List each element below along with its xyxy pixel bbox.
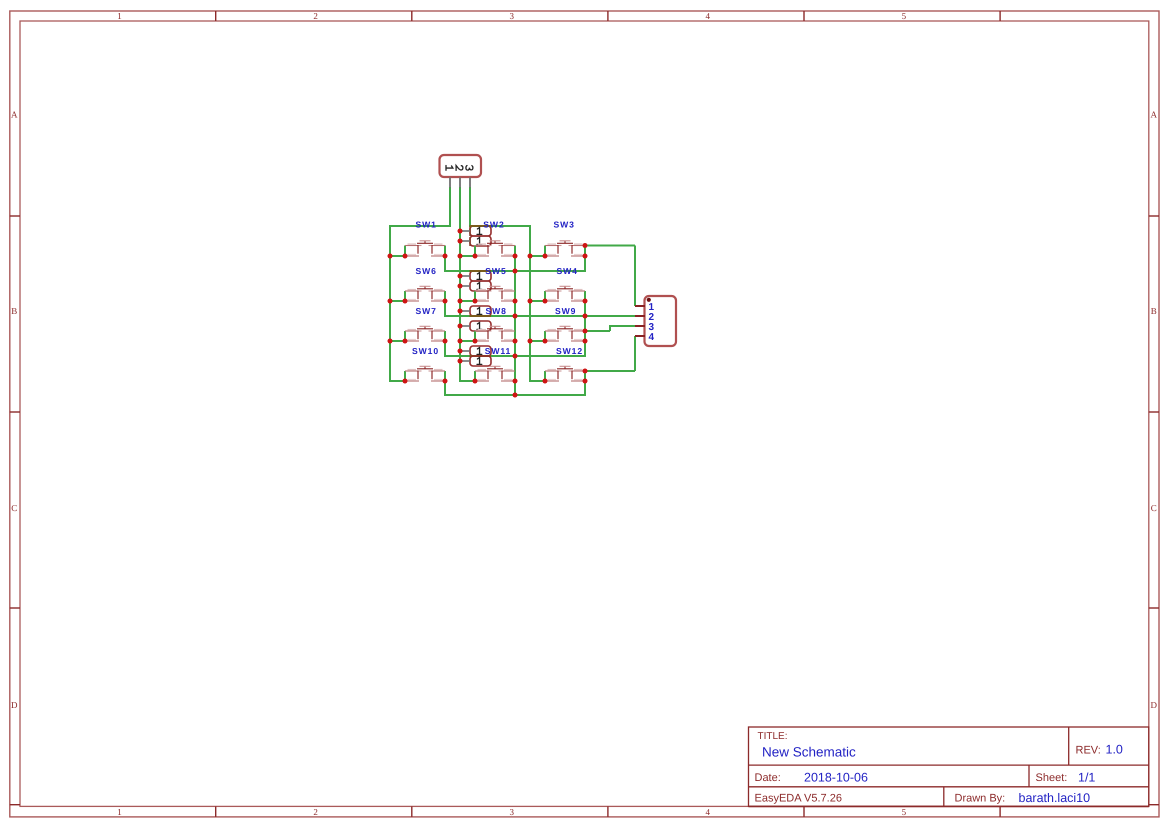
svg-text:5: 5 xyxy=(902,807,907,817)
svg-text:Sheet:: Sheet: xyxy=(1036,772,1068,784)
svg-text:New Schematic: New Schematic xyxy=(762,745,856,760)
svg-text:2: 2 xyxy=(313,11,318,21)
connector J1 3-pin header (pins 1 2 3) xyxy=(440,155,482,188)
svg-text:barath.laci10: barath.laci10 xyxy=(1019,791,1091,805)
svg-text:C: C xyxy=(11,503,17,513)
switch SW1 xyxy=(403,219,448,258)
svg-text:Drawn By:: Drawn By: xyxy=(955,793,1006,805)
wire row4 horizontal y=395 xyxy=(444,381,586,397)
wire net from J1 pin2: middle rail x=460 xyxy=(458,187,475,382)
switch SW9 xyxy=(543,306,588,344)
connector U4 1-pin header (row2 b) xyxy=(458,281,491,291)
svg-text:REV:: REV: xyxy=(1076,744,1101,756)
svg-text:SW2: SW2 xyxy=(483,219,504,229)
svg-text:SW5: SW5 xyxy=(485,266,506,276)
switch SW5 xyxy=(473,266,518,303)
wire SW3 to J2 pin1 xyxy=(583,243,635,306)
switch SW11 xyxy=(473,346,518,384)
svg-text:SW1: SW1 xyxy=(416,219,437,229)
switch SW12 xyxy=(543,346,588,384)
svg-text:2: 2 xyxy=(313,807,318,817)
svg-text:SW9: SW9 xyxy=(555,306,576,316)
svg-text:3: 3 xyxy=(509,807,514,817)
svg-text:TITLE:: TITLE: xyxy=(758,731,788,742)
switch SW10 xyxy=(403,346,448,384)
svg-text:B: B xyxy=(1151,306,1157,316)
svg-text:B: B xyxy=(11,306,17,316)
junction dots overlay xyxy=(388,229,588,398)
switch SW6 xyxy=(403,266,448,303)
switch SW8 xyxy=(473,306,518,344)
wire row3 horizontal y=356 xyxy=(444,341,586,371)
title block xyxy=(749,727,1149,806)
svg-text:4: 4 xyxy=(706,807,711,817)
svg-text:Date:: Date: xyxy=(755,772,781,784)
svg-text:A: A xyxy=(11,110,18,120)
wire net from J1 pin3: right column rail x=530 xyxy=(470,187,545,382)
wire net from J1 pin1: left column rail x=390 xyxy=(388,187,451,382)
connector U7 1-pin header (row4 a) xyxy=(458,346,491,356)
svg-text:D: D xyxy=(11,700,18,710)
svg-text:A: A xyxy=(1151,110,1158,120)
switch SW7 xyxy=(403,306,448,344)
svg-text:5: 5 xyxy=(902,11,907,21)
connector U8 1-pin header (row4 b) xyxy=(458,356,491,366)
connector U1 1-pin header (row1 a) xyxy=(458,226,491,236)
wire SW9 to J2 pin3 xyxy=(583,325,635,333)
svg-text:SW11: SW11 xyxy=(485,346,512,356)
wire row2 horizontal y=316 to J2 pin2 xyxy=(444,301,635,331)
svg-text:SW8: SW8 xyxy=(486,306,507,316)
svg-text:SW4: SW4 xyxy=(557,266,578,276)
svg-text:4: 4 xyxy=(706,11,711,21)
connector U2 1-pin header (row1 b) xyxy=(458,236,491,246)
connector U5 1-pin header (row3 a) xyxy=(458,306,491,316)
svg-text:EasyEDA V5.7.26: EasyEDA V5.7.26 xyxy=(755,793,842,805)
svg-text:SW6: SW6 xyxy=(416,266,437,276)
svg-text:1.0: 1.0 xyxy=(1106,743,1123,757)
switch SW3 xyxy=(543,219,588,258)
wire SW12 to J2 pin4 xyxy=(583,336,635,373)
connector J2 4-pin header (pins 1 2 3 4) xyxy=(635,296,676,346)
svg-text:1: 1 xyxy=(117,807,122,817)
svg-text:1/1: 1/1 xyxy=(1078,771,1095,785)
connector U6 1-pin header (row3 b) xyxy=(458,321,491,331)
switch SW4 xyxy=(543,266,588,303)
svg-text:1: 1 xyxy=(117,11,122,21)
svg-text:SW3: SW3 xyxy=(554,219,575,229)
svg-text:D: D xyxy=(1151,700,1158,710)
svg-text:4: 4 xyxy=(649,332,655,343)
svg-text:2018-10-06: 2018-10-06 xyxy=(804,771,868,785)
svg-text:SW10: SW10 xyxy=(412,346,439,356)
svg-text:C: C xyxy=(1151,503,1157,513)
wire row1 horizontal y=271 xyxy=(444,256,586,291)
switch SW2 xyxy=(473,219,518,258)
svg-text:SW12: SW12 xyxy=(556,346,583,356)
svg-text:SW7: SW7 xyxy=(416,306,437,316)
connector U3 1-pin header (row2 a) xyxy=(458,271,491,281)
svg-text:3: 3 xyxy=(509,11,514,21)
